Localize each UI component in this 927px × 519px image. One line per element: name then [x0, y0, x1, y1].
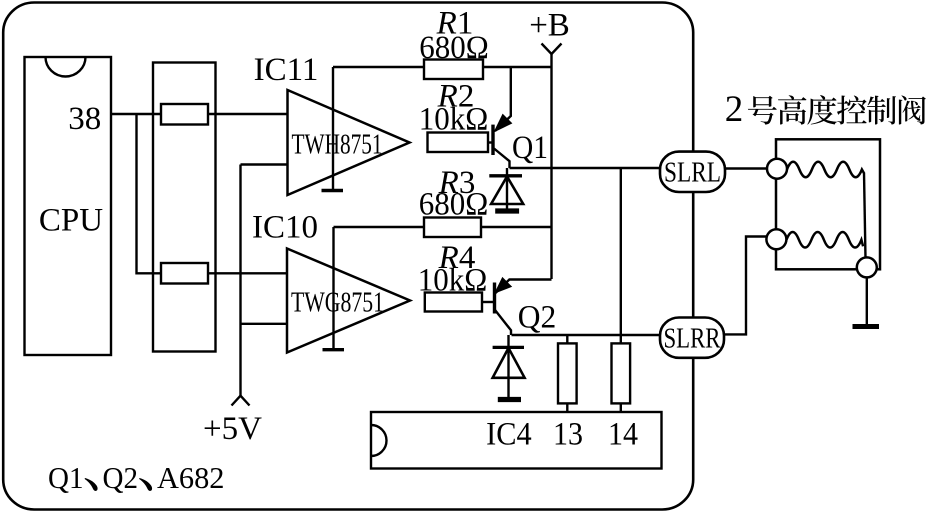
wire: SLRR to valve coil 2: [724, 237, 766, 335]
resistor R13 (to IC4 pin 13): [558, 343, 577, 403]
wire: Q1 line down to resistor R14: [620, 168, 622, 343]
wire: IC11 top pin riser: [332, 67, 334, 190]
node SLRL: [660, 152, 725, 192]
valve coil 1 (winding): [787, 162, 864, 178]
ground bar under IC11: [322, 189, 344, 192]
CPU block: [25, 57, 112, 355]
svg-text:SLRL: SLRL: [664, 157, 721, 189]
valve label 2号高度控制阀: [725, 89, 926, 130]
wire: IC10 lower input from +5V rail: [241, 323, 288, 325]
ground bar under D1: [495, 208, 519, 213]
wire: Ra to IC11 input: [208, 113, 288, 115]
resistor R14 (to IC4 pin 14): [612, 343, 631, 403]
wire: IC11 riser to R1: [333, 66, 424, 68]
valve common terminal circle: [857, 257, 877, 277]
transistor Q2: [495, 279, 557, 336]
resistor R3: [424, 218, 481, 238]
+B fork symbol: [542, 44, 562, 55]
op-amp driver IC10 TWG8751: [252, 209, 410, 352]
wire: common terminal to ground: [866, 277, 868, 324]
transistor Q1: [493, 67, 548, 168]
+B supply rail: [550, 54, 552, 279]
svg-text:SLRR: SLRR: [664, 322, 722, 354]
resistor R2: [428, 133, 489, 153]
svg-text:IC10: IC10: [252, 209, 318, 245]
wire: Q1 collector to SLRL: [510, 167, 661, 169]
wire: branch down to resistor Rb: [137, 114, 162, 273]
wire: IC10 top pin riser: [332, 227, 334, 349]
svg-text:IC11: IC11: [254, 52, 319, 88]
svg-text:TWH8751: TWH8751: [292, 130, 383, 161]
wire: R2 to Q1 base: [488, 141, 493, 143]
wire: R3 to +B rail: [481, 226, 552, 228]
valve coil 2 (winding): [786, 232, 863, 248]
wire: coil ends to common terminal: [864, 173, 866, 259]
resistor R4: [425, 293, 482, 312]
+5V fork symbol: [232, 396, 250, 406]
diode D1 (flyback, Q1 output to ground): [489, 168, 523, 209]
resistor Rb (inside interface block): [161, 263, 208, 284]
svg-text:13: 13: [553, 416, 583, 452]
IC4 block: [371, 412, 662, 469]
svg-text:Q1: Q1: [512, 130, 548, 166]
wire: Rb to IC10 input: [208, 272, 288, 274]
part note Q1,Q2 = A682: [48, 460, 225, 495]
wire: R13 to IC4: [566, 403, 568, 412]
ground bar under IC10: [323, 348, 345, 351]
interface block (buffer IC): [153, 63, 216, 352]
wire: R14 to IC4: [620, 403, 622, 412]
ground bar (valve): [853, 324, 880, 329]
op-amp driver IC11 TWH8751: [254, 52, 410, 195]
valve terminal circle 2: [766, 229, 786, 249]
svg-text:CPU: CPU: [39, 202, 103, 238]
svg-text:14: 14: [608, 416, 638, 452]
svg-text:Q1: Q1: [48, 460, 84, 495]
valve body frame: [776, 139, 880, 269]
svg-text:2: 2: [725, 89, 744, 130]
wire: IC10 riser to R3: [334, 226, 425, 228]
wire: R1 to +B rail: [483, 66, 552, 68]
svg-text:A682: A682: [157, 460, 225, 495]
diode D2 (flyback, Q2 output to ground): [493, 335, 525, 398]
wire: Q2 line down to resistor R13: [566, 335, 568, 343]
svg-text:+B: +B: [529, 7, 570, 43]
+5V supply rail: [239, 165, 241, 396]
svg-text:TWG8751: TWG8751: [291, 288, 384, 319]
valve terminal circle 1: [767, 159, 787, 179]
main board outline box: [3, 3, 693, 510]
svg-text:+5V: +5V: [203, 411, 262, 447]
svg-text:38: 38: [68, 101, 101, 137]
node SLRR: [660, 318, 724, 358]
wire: CPU pin 38 to resistor Ra: [111, 113, 161, 115]
wire: Q2 collector to SLRR: [512, 334, 661, 336]
svg-text:IC4: IC4: [486, 416, 532, 452]
wire: R4 to Q2 base: [482, 301, 495, 303]
wire: SLRL to valve coil 1: [725, 167, 768, 169]
svg-text:Q2: Q2: [103, 460, 139, 495]
svg-text:Q2: Q2: [518, 299, 557, 335]
wire: IC11 lower input from +5V rail: [241, 163, 288, 165]
ground bar under D2: [498, 397, 521, 402]
resistor R1: [424, 60, 483, 80]
resistor Ra (inside interface block): [161, 104, 208, 125]
